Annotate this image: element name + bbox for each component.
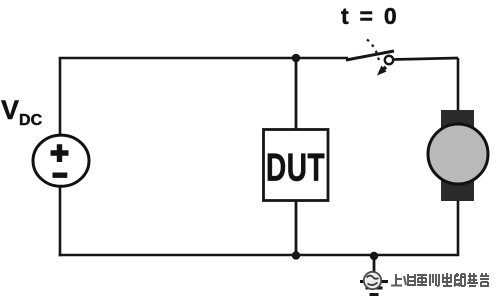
label DUT [266,146,325,191]
watermark text (stylized CJK strokes) [391,273,489,286]
label V_DC [1,95,42,130]
ground bar 1 [360,280,388,283]
wire top rail [59,57,348,60]
node junction top (DUT branch) [292,54,301,63]
switch SW1 lever [346,51,394,60]
voltage source plus sign [51,144,69,162]
char 6 [454,273,465,286]
char 7 [467,273,478,286]
char 1 [391,274,402,286]
wire switch to right corner [393,58,458,60]
wire motor bottom vertical [59,201,458,255]
ground bar 2 [366,287,383,290]
ground bar 3 [370,293,379,296]
node junction ground [370,252,378,260]
wire ground stub [373,256,376,279]
switch SW1 actuation arrow head [377,66,387,76]
wire DUT bottom vertical [295,200,298,255]
motor M1 body circle [428,124,488,184]
wire bottom-left vertical (Vdc minus to bottom rail) [59,187,62,256]
char 8 [480,273,489,286]
watermark logo circle [364,272,381,289]
char 4 [430,274,439,286]
motor M1 bottom brush block [441,176,474,201]
voltage source minus sign [53,172,68,177]
wire DUT top vertical [295,58,298,130]
char 5 [443,273,452,286]
char 2 [404,274,415,286]
voltage source V1 circle [33,135,89,186]
wire top-left vertical (Vdc to top rail) [59,58,62,135]
DUT box [264,130,329,201]
node junction bottom (DUT to bottom rail) [292,251,300,259]
wire right vertical to motor [457,58,460,112]
char 3 [417,274,427,286]
switch SW1 actuation dashed arc [367,40,380,64]
label t = 0 [341,3,397,30]
switch SW1 contact circle [385,56,393,64]
motor M1 top brush block [441,110,474,128]
